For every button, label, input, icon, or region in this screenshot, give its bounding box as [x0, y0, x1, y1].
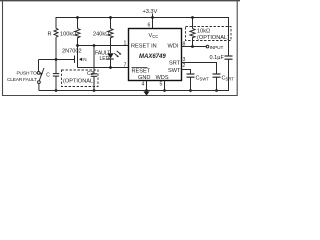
wire: 240k bottom to LED anode (crosses node A, no dot)	[110, 37, 112, 53]
pin 8	[183, 42, 186, 48]
wire: Q1 source down to node B	[77, 64, 79, 68]
svg-text:PUSH TO: PUSH TO	[17, 71, 38, 77]
overline on RESET	[132, 67, 148, 69]
wire: rail dot down into optional 10k	[192, 18, 194, 29]
wire: drain drop from node A to Q1	[77, 46, 79, 55]
wire: SWT pin 2 over and down to CSWT	[182, 70, 191, 75]
svg-text:WDS: WDS	[156, 75, 169, 81]
wire: rail right corner down to 0.1uF	[228, 17, 230, 56]
svg-text:CSWT: CSWT	[196, 76, 210, 82]
terminal INPUT	[206, 45, 209, 48]
wire: WDI pin 8 to INPUT terminal	[182, 46, 207, 48]
pin 3	[183, 57, 186, 63]
capacitor C2 (optional)	[87, 71, 97, 90]
node dot B at LED	[109, 66, 112, 69]
capacitor 0.1uF	[210, 55, 233, 61]
LED FAULT indicator	[95, 51, 121, 62]
wire: node A horizontal (RESET IN)	[78, 45, 129, 47]
node dot CSWT on ground rail	[189, 89, 192, 92]
node dot WDS on rail	[163, 89, 166, 92]
svg-text:CLEAR FAULT: CLEAR FAULT	[7, 77, 37, 83]
svg-text:5: 5	[160, 81, 163, 87]
node dot VCC on rail	[151, 16, 154, 19]
pushbutton switch: push to clear fault	[7, 60, 44, 91]
wire: supply stub down to VCC pin 6	[152, 14, 154, 29]
svg-text:SWT: SWT	[168, 68, 181, 74]
svg-text:WDI: WDI	[168, 44, 179, 50]
transistor Q1 2N7002	[62, 49, 87, 65]
pin 1	[124, 41, 127, 47]
resistor 240k	[108, 29, 113, 38]
svg-text:(OPTIONAL): (OPTIONAL)	[63, 79, 95, 85]
wire: rail left corner down to resistor R	[55, 17, 57, 29]
resistor 10k (optional)	[190, 29, 195, 38]
node dot GND on rail	[145, 89, 148, 92]
node dot 100k on rail	[76, 16, 79, 19]
svg-text:INPUT: INPUT	[210, 45, 224, 51]
svg-text:C: C	[46, 73, 50, 79]
ground symbol arrow	[143, 91, 149, 96]
wire: +3.3V top rail	[56, 17, 229, 19]
wire: WDS pin 5 drop	[164, 81, 166, 91]
svg-text:0.1µF: 0.1µF	[210, 55, 225, 61]
wire: 0.1uF bottom down to ground rail corner	[227, 59, 229, 90]
wire: 100k top drop	[77, 18, 79, 29]
svg-text:RESET IN: RESET IN	[131, 44, 157, 50]
svg-text:6: 6	[148, 23, 151, 29]
svg-text:10kΩ: 10kΩ	[197, 29, 210, 35]
svg-text:CSRT: CSRT	[222, 76, 235, 82]
op-amp/IC U1 MAX6749 box	[129, 29, 182, 81]
svg-text:(OPTIONAL): (OPTIONAL)	[197, 35, 229, 41]
svg-text:2: 2	[183, 63, 186, 69]
node dot A at 100k / drain	[76, 44, 79, 47]
node dot CSRT on ground rail	[215, 89, 218, 92]
pin 5	[160, 81, 163, 87]
svg-text:4: 4	[142, 81, 145, 87]
capacitor CSWT	[187, 74, 210, 91]
wire: C2 branch from node A down through node B crossing	[93, 46, 95, 74]
dashed box optional 10k	[186, 27, 232, 41]
svg-text:R: R	[48, 32, 52, 38]
svg-text:+3.3V: +3.3V	[143, 9, 158, 15]
node dot C on ground rail	[55, 89, 58, 92]
wire: ground rail	[39, 90, 229, 92]
node dot A at C2 branch	[93, 44, 96, 47]
pin 7	[124, 63, 127, 69]
svg-text:2N7002: 2N7002	[62, 49, 82, 55]
node +3.3V label	[143, 9, 158, 15]
resistor 100k	[75, 29, 80, 38]
pin 2	[183, 63, 186, 69]
svg-text:MAX6749: MAX6749	[139, 54, 166, 60]
svg-text:RESET: RESET	[132, 69, 151, 75]
wire: gate line	[39, 59, 75, 61]
svg-text:N: N	[83, 57, 86, 62]
node dot gate/R/C	[55, 58, 58, 61]
wire: node B horizontal (RESET)	[78, 67, 129, 69]
pin 4	[142, 81, 145, 87]
wire: 100k bottom to node A	[77, 37, 79, 45]
svg-text:VCC: VCC	[149, 33, 159, 39]
dashed box optional C2	[62, 70, 99, 87]
svg-text:1: 1	[124, 41, 127, 47]
node dot WDI / 10k	[191, 45, 194, 48]
svg-text:100kΩ: 100kΩ	[60, 32, 76, 38]
pin 6	[148, 23, 151, 29]
svg-text:C2: C2	[87, 71, 94, 77]
wire: LED cathode to node B	[110, 59, 112, 68]
node dot C2 on ground rail	[93, 89, 96, 92]
svg-text:7: 7	[124, 63, 127, 69]
node dot 10k on rail	[191, 16, 194, 19]
capacitor CSRT	[213, 74, 235, 91]
svg-text:GND: GND	[138, 75, 150, 81]
wire: SRT pin 3 over and down to CSRT	[182, 63, 217, 75]
wire: 240k top drop	[110, 18, 112, 29]
wire: GND pin 4 drop	[146, 81, 148, 91]
figure border	[0, 1, 240, 96]
svg-text:SRT: SRT	[169, 61, 181, 67]
capacitor C	[46, 60, 59, 91]
resistor R	[54, 28, 58, 37]
wire: R bottom to gate node	[55, 37, 57, 59]
node dot 240k on rail	[109, 16, 112, 19]
svg-text:240kΩ: 240kΩ	[93, 32, 109, 38]
